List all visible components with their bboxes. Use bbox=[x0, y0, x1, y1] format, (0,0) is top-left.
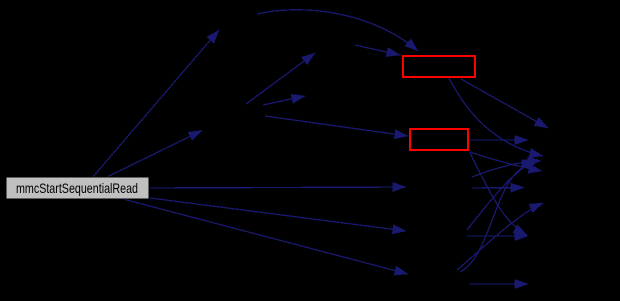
wire edge main to node A bbox=[92, 30, 219, 178]
wire edge node B to red box 2 bbox=[265, 116, 408, 136]
wire edge node F to node R4 bbox=[467, 235, 528, 237]
wire edge node B to node H bbox=[263, 96, 305, 105]
wire curved edge red box 1 to cluster node bbox=[449, 78, 543, 156]
wire curved edge node A to red box 1 bbox=[257, 10, 418, 51]
wire edge red box 1 to node R1 bbox=[461, 79, 548, 128]
wire curved edge node G to upper cluster node bbox=[460, 164, 535, 272]
wire edge red box 2 to node R3 bbox=[470, 152, 542, 171]
wire edge node B to node D bbox=[246, 53, 315, 104]
wire curved edge red box 2 to node R4 bbox=[470, 153, 527, 235]
wire edge node D to red box 1 bbox=[355, 45, 400, 55]
node mmcStartSequentialRead (highlighted root) bbox=[6, 177, 149, 199]
wire edge node G to node R5 bbox=[469, 283, 528, 285]
wire edge main to node G bbox=[123, 199, 408, 274]
wire edge node E to node R3 bbox=[472, 187, 524, 190]
wire edge main to node E bbox=[150, 187, 406, 188]
red box 2 (highlighted node) bbox=[410, 129, 468, 150]
red box 1 (highlighted node) bbox=[403, 56, 475, 77]
wire curved edge node F to cluster node bbox=[467, 159, 538, 230]
wire edge main to node B bbox=[105, 131, 202, 179]
wire edge main to node F bbox=[150, 198, 406, 231]
svg-text:mmcStartSequentialRead: mmcStartSequentialRead bbox=[16, 180, 138, 196]
wire curved edge node E to cluster node bbox=[472, 161, 541, 177]
wire edge red box 2 to node R2 bbox=[470, 139, 528, 141]
wire curved edge node G to fat cluster node bbox=[457, 203, 543, 270]
